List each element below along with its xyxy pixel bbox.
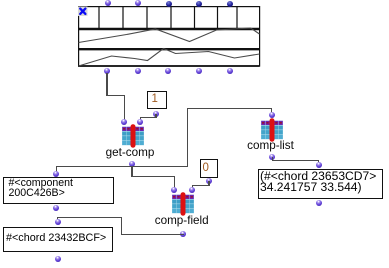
editor outlet 3 xyxy=(165,68,171,74)
comp-list label xyxy=(231,140,311,152)
wire comp-list to chord-list box xyxy=(272,157,273,161)
comp-field inlet 1 xyxy=(171,187,177,193)
editor outlet 5 xyxy=(227,68,233,74)
number box 1 xyxy=(147,91,167,109)
editor inlet 1 xyxy=(105,0,111,6)
component box inlet xyxy=(53,171,59,177)
chord-list value box xyxy=(258,169,383,199)
comp-list icon xyxy=(260,118,284,142)
comp-field icon xyxy=(171,192,195,216)
editor inlet 2 xyxy=(135,0,141,6)
editor outlet 4 xyxy=(196,68,202,74)
chord box outlet xyxy=(55,256,61,262)
number box 0 xyxy=(200,159,218,178)
component box outlet xyxy=(53,205,59,211)
get-comp inlet 1 xyxy=(121,119,127,125)
wire comp-field to chord box xyxy=(121,234,184,235)
row divider line xyxy=(78,48,260,50)
get-comp outlet xyxy=(129,161,135,167)
class-array editor box xyxy=(77,5,261,69)
editor inlet 4 xyxy=(196,1,202,7)
chord box inlet xyxy=(55,219,61,225)
cell divider xyxy=(193,7,195,29)
get-comp label xyxy=(90,147,170,159)
comp-field label xyxy=(142,215,222,227)
chord-list box inlet xyxy=(316,162,322,168)
wire get-comp to component box xyxy=(56,166,132,167)
wire get-comp to comp-list xyxy=(132,166,188,167)
cell divider xyxy=(216,7,218,29)
chord-list box outlet xyxy=(316,200,322,206)
editor outlet 1 xyxy=(104,68,110,74)
wire editor-out1 to get-comp in1 xyxy=(106,73,107,96)
editor outlet 2 xyxy=(135,68,141,74)
cell divider xyxy=(236,7,238,29)
get-comp icon xyxy=(121,124,145,148)
close button X xyxy=(78,6,88,16)
comp-field inlet 2 xyxy=(189,187,195,193)
get-comp inlet 2 xyxy=(137,119,143,125)
editor frame xyxy=(78,6,259,65)
wire 0 to comp-field in2 xyxy=(208,181,209,186)
comp-list inlet xyxy=(269,112,275,118)
editor inlet 3 xyxy=(166,1,172,7)
outlet of 1 xyxy=(153,111,159,117)
curve row 1 xyxy=(78,28,259,43)
cell divider xyxy=(122,7,124,29)
cell divider xyxy=(146,7,148,29)
comp-list outlet xyxy=(269,154,275,160)
cell divider xyxy=(98,7,100,29)
outlet of 0 xyxy=(206,178,212,184)
cell divider xyxy=(170,7,172,29)
wire 1 to get-comp in2 xyxy=(155,114,156,119)
wire get-comp to comp-field in1 xyxy=(131,166,132,177)
curve row 2 xyxy=(78,48,259,66)
comp-field outlet xyxy=(180,231,186,237)
cell row bottom line xyxy=(78,27,260,29)
chord value box xyxy=(3,227,113,252)
component value box xyxy=(3,177,114,204)
editor inlet 5 xyxy=(227,1,233,7)
